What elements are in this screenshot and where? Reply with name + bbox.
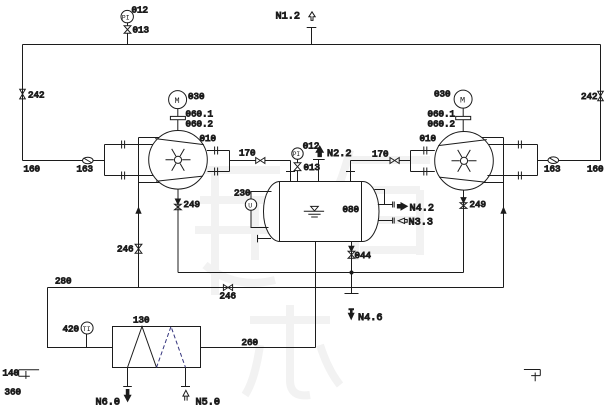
svg-text:246: 246 [117,244,134,255]
valve 249 (left) [175,204,182,210]
valve 170 (left) [256,158,265,164]
wire line 170 (right) [351,160,390,162]
svg-text:163: 163 [77,164,94,175]
flow arrow (up) on right aux line [501,208,506,214]
exchanger coil (process side) [128,327,157,368]
wire discharge line 170 (left) [230,160,256,162]
valve 246 (horizontal) [223,285,232,291]
node N1.2 vent connector [311,28,313,45]
svg-text:N4.2: N4.2 [410,204,434,215]
node N5.0 inlet [185,368,187,387]
drain symbol (bottom-right) [524,370,540,382]
valve 249 (right) [460,203,467,209]
svg-text:N2.2: N2.2 [327,149,351,160]
vessel bottom-left drain with cap [258,238,272,240]
wire return header 280 [48,287,504,289]
svg-text:N6.0: N6.0 [96,398,120,409]
valve 242 (left) [20,89,26,99]
node N4.2 nozzle [378,204,393,206]
drain line pump P2 with flow arrow [463,190,465,272]
svg-text:242: 242 [28,90,45,101]
flow arrow (up) on aux line [136,208,141,214]
motor M 030 (left) [177,109,179,117]
wire drop to heat exchanger [48,288,113,348]
level gauge 230 [251,192,272,199]
svg-text:PI: PI [122,14,130,21]
svg-text:030: 030 [188,91,205,102]
wire vessel top-right nozzle [350,161,352,182]
valve 170 (right) [390,158,399,164]
node junction dot [350,271,354,275]
svg-text:060.2: 060.2 [428,119,456,130]
wire pump P2 aux line [503,138,505,288]
check valve 163 (right) [548,157,559,164]
svg-text:N3.3: N3.3 [409,218,433,229]
svg-text:160: 160 [587,164,604,175]
pump P1 body (left) [149,131,208,190]
vessel drain nozzle with flow arrow [351,242,353,294]
instrument PI 012 (vessel) [297,171,299,182]
wire right riser [600,45,602,161]
wire pump P2 aux bottom stub [483,182,504,184]
wire vessel bottom nozzle to line 260 [315,242,317,348]
svg-text:160: 160 [24,164,41,175]
drain line pump P1 with flow arrow [177,189,179,272]
wire top vent header [23,44,601,46]
svg-text:044: 044 [355,250,372,261]
svg-text:030: 030 [434,89,451,100]
svg-text:N4.6: N4.6 [358,313,382,324]
wire suction line 160 (left) [23,160,105,162]
svg-text:360: 360 [5,387,22,398]
svg-text:420: 420 [63,324,80,335]
motor M 030 (right) [462,108,464,116]
valve 246 (vertical) [135,244,142,253]
svg-text:012: 012 [303,141,320,152]
svg-text:M: M [460,96,465,106]
vessel V 080 [264,182,380,242]
vessel right head upper tap (jog) [375,190,385,205]
svg-text:PI: PI [293,151,301,158]
valve 013 (top-left) [124,26,131,34]
svg-text:M: M [175,96,180,106]
node N4.6 connector [349,308,355,313]
node N2.2 connector [318,160,320,182]
svg-text:080: 080 [343,204,360,215]
svg-text:242: 242 [581,91,598,102]
svg-text:013: 013 [304,162,321,173]
wire pump P2 aux top stub [482,137,504,139]
wire line 260 to vessel [201,347,316,349]
svg-text:170: 170 [372,149,389,160]
svg-text:010: 010 [200,133,217,144]
pump P2 discharge box (right) [411,151,435,172]
svg-text:246: 246 [220,291,237,302]
watermark [190,150,430,395]
instrument TI 420 [86,334,88,348]
svg-text:280: 280 [55,276,72,287]
dead leg cap [345,293,359,295]
svg-text:060.2: 060.2 [186,119,214,130]
svg-text:130: 130 [133,315,150,326]
check valve 163 (left) [83,157,94,164]
valve 044 [348,251,355,258]
pump P2 body (right) [435,132,494,191]
level mark inside vessel [311,206,319,211]
exchanger coil (water side, dashed) [157,327,186,368]
valve 242 (right) [598,91,604,101]
valve 013 (vessel) [294,163,301,171]
node N3.3 nozzle [379,220,393,222]
svg-text:N5.0: N5.0 [196,398,220,409]
wire pump P1 aux bottom stub [139,182,160,184]
wire suction line 160 (right) [538,160,601,162]
svg-text:163: 163 [544,164,561,175]
svg-text:260: 260 [242,337,259,348]
wire drain header [178,272,464,274]
svg-text:249: 249 [184,199,201,210]
wire pump P1 aux top stub [139,137,161,139]
node N6.0 drain [127,368,129,387]
heat exchanger E 130 [113,327,201,368]
svg-text:013: 013 [133,25,150,36]
svg-text:N1.2: N1.2 [276,12,300,23]
instrument PI 012 (top-left) [127,33,129,44]
pump P1 discharge box (left) [207,151,230,172]
pump P2 suction box (right) [487,145,537,176]
svg-text:012: 012 [132,5,149,16]
drain symbol 140/360 (bottom-left) [19,370,39,379]
svg-text:U: U [248,202,252,209]
svg-text:140: 140 [3,368,20,379]
wire pump P1 aux line [138,138,140,288]
wire left riser [22,45,24,161]
pump P1 suction box (left) [105,145,155,176]
svg-text:230: 230 [234,188,251,199]
svg-text:010: 010 [420,133,437,144]
svg-text:249: 249 [470,199,487,210]
svg-text:170: 170 [239,148,256,159]
svg-text:TI: TI [83,326,91,333]
wire vessel top-left nozzle [290,161,292,182]
